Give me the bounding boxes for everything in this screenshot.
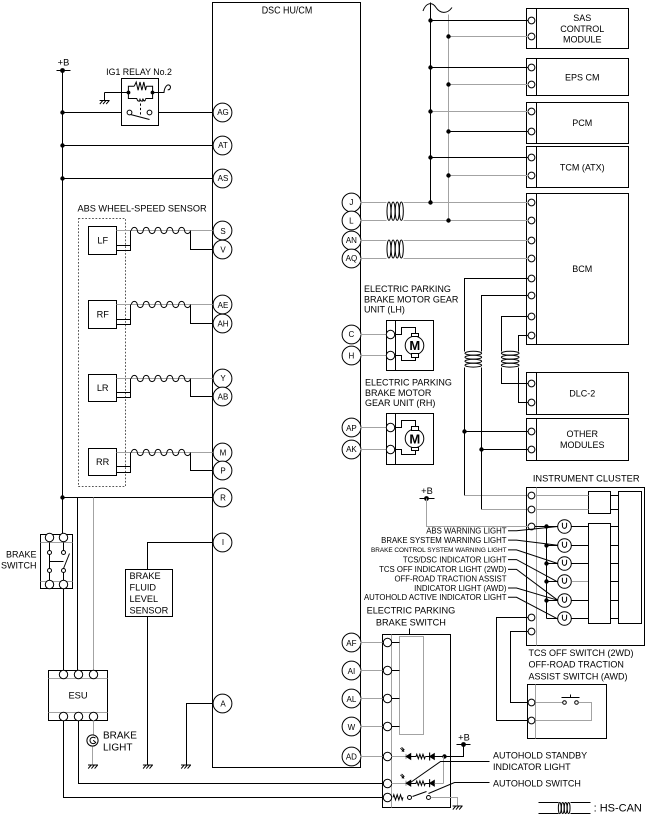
ground relay coil ground (100, 101, 110, 105)
wire sensor LR coil wave (131, 375, 190, 381)
wire driver block to body block row 5 (611, 600, 619, 602)
wire sensor RR return (130, 453, 132, 470)
pin W (342, 717, 361, 736)
wire bus2 to PCM pin2 (449, 131, 529, 133)
module EPS CM (527, 59, 629, 96)
wire relay coil to ground (105, 92, 129, 94)
lamp BRAKE LIGHT (87, 735, 98, 746)
pin parking brake switch pin4 (383, 722, 391, 730)
svg-text:R: R (220, 494, 226, 503)
wire AI stub to inner block (392, 670, 400, 672)
twisted pair braid AN/AQ (387, 240, 391, 258)
wire bus2 to EPS pin2 (449, 84, 529, 86)
svg-text:TCS OFF SWITCH (2WD): TCS OFF SWITCH (2WD) (529, 648, 634, 658)
wire ESU terminal2 to autohold indicator row (79, 721, 383, 784)
leader line AUTOHOLD SWITCH (429, 783, 490, 794)
leader line TCS OFF INDICATOR LIGHT (2WD) (508, 569, 558, 600)
svg-text:OFF-ROAD TRACTION: OFF-ROAD TRACTION (529, 660, 624, 670)
lamp indicator 4 (558, 575, 572, 589)
wire lamp 4 to driver block (572, 581, 589, 583)
pin C (342, 325, 361, 344)
wire AQ to BCM pin4 (361, 258, 387, 260)
wire cluster pin1 to small block (537, 495, 589, 497)
svg-text:AF: AF (346, 639, 356, 648)
wire lamp 5 feed (547, 600, 558, 602)
wire BCM pin6 to vertical pair A line2 (482, 296, 529, 352)
wire driver block to body block row 4 (611, 581, 619, 583)
svg-text:M: M (409, 338, 420, 353)
svg-text:AI: AI (348, 667, 356, 676)
wire cluster pin5 to TCS pin1 (511, 632, 529, 703)
svg-text:TCS OFF INDICATOR LIGHT (2WD): TCS OFF INDICATOR LIGHT (2WD) (379, 565, 507, 574)
pin parking brake switch pin1 (383, 638, 391, 646)
wire ESU terminal1 to autohold switch row (64, 721, 383, 798)
pin BCM pin1 (528, 199, 535, 206)
svg-text:EPS CM: EPS CM (565, 72, 600, 82)
svg-text:LF: LF (97, 236, 108, 246)
wire L to BCM pin2 (361, 220, 387, 222)
wire cluster pin2 to small block (537, 509, 589, 511)
wire lamp 1 feed (547, 526, 558, 528)
wire drop to ESU terminal 2 (77, 498, 79, 671)
wire bus2 to SAS pin2 (449, 36, 529, 38)
svg-text:V: V (220, 245, 226, 254)
svg-text:ELECTRIC PARKING: ELECTRIC PARKING (367, 606, 456, 616)
svg-text:TCM (ATX): TCM (ATX) (560, 162, 605, 172)
wire pair B line2 to DLC-2 pin2 (519, 368, 529, 403)
pin instrument cluster pin3 (528, 523, 535, 530)
svg-text:DSC HU/CM: DSC HU/CM (262, 5, 313, 17)
svg-text:M: M (409, 431, 420, 446)
svg-text:AK: AK (346, 445, 357, 454)
wire BCM pin7 to vertical pair B line1 (502, 317, 529, 352)
svg-text:ABS WARNING LIGHT: ABS WARNING LIGHT (426, 527, 507, 536)
pin AQ (342, 249, 361, 268)
pin J (342, 193, 361, 212)
lamp indicator 6 (558, 612, 572, 626)
wire AL stub to inner block (392, 698, 400, 700)
pin AN (342, 231, 361, 250)
pin AS (213, 169, 232, 188)
svg-text:+B: +B (58, 58, 70, 68)
pin V (213, 240, 232, 259)
pin PCM pin2 (528, 128, 535, 135)
svg-text:BRAKE CONTROL SYSTEM WARNING L: BRAKE CONTROL SYSTEM WARNING LIGHT (371, 547, 507, 554)
sensor RF wheel-speed sensor (89, 301, 117, 329)
wire to OTHER MODULES pin1 (465, 431, 529, 433)
pin BCM pin5 (528, 275, 535, 282)
node +B junction row AD (442, 754, 446, 758)
wire AF stub to inner block (392, 642, 400, 644)
svg-text:S: S (220, 227, 225, 236)
cluster driver block (small rect) (589, 492, 611, 514)
cluster driver block (tall rect) (589, 524, 611, 624)
svg-text:LIGHT: LIGHT (103, 743, 132, 754)
ground terminal A ground (181, 765, 191, 769)
twisted pair braid J/L (387, 202, 391, 220)
svg-text:FLUID: FLUID (130, 583, 157, 593)
wire cluster pin4 to TCS pin2 (497, 618, 529, 721)
sensor RR wheel-speed sensor (89, 449, 117, 476)
svg-text:IG1 RELAY No.2: IG1 RELAY No.2 (106, 67, 172, 77)
svg-text:I: I (222, 538, 224, 547)
svg-text:INDICATOR LIGHT: INDICATOR LIGHT (493, 762, 571, 772)
module SAS CONTROL MODULE (527, 9, 629, 49)
switch TCS OFF switch box (528, 685, 607, 739)
pin instrument cluster pin2 (528, 506, 535, 513)
wire sensor LF coil wave (131, 227, 190, 233)
svg-text:RF: RF (97, 310, 110, 320)
pin OTHER MODULES pin2 (528, 446, 535, 453)
leader line BRAKE CONTROL SYSTEM WARNING LIGHT (508, 550, 558, 564)
wire TCS contact to pin2 loop (536, 703, 592, 721)
node rail-AS junction (60, 176, 64, 180)
wire bus1 to SAS pin1 (431, 20, 529, 22)
wire driver block to body block row 1 (611, 526, 619, 528)
node +B rail junction (60, 68, 65, 73)
pin DLC-2 pin1 (528, 380, 535, 387)
wire AL to switch (361, 698, 383, 700)
wire lamp 4 feed (547, 581, 558, 583)
pin AT (213, 136, 232, 155)
wire W to switch (361, 726, 383, 728)
wire pair A line2 down to instrument cluster pin2 (481, 368, 483, 510)
lamp indicator 2 (558, 539, 572, 553)
pin AK (342, 440, 361, 459)
ground brake fluid sensor ground (143, 765, 153, 769)
svg-text:A: A (220, 700, 226, 709)
svg-text:MODULE: MODULE (563, 35, 602, 45)
legend HS-CAN twisted pair (539, 802, 559, 804)
pin TCS switch pin1 (528, 699, 535, 706)
wire lamp 3 feed (547, 563, 558, 565)
wire +B drop to row AD (445, 745, 464, 757)
wire lamp 6 to driver block (572, 618, 589, 620)
wire cluster pin3 to lamp feed bus (535, 526, 547, 528)
pin AP (342, 418, 361, 437)
leader line TCS/DSC INDICATOR LIGHT (508, 560, 558, 582)
svg-text:SENSOR: SENSOR (130, 606, 169, 616)
wire CAN bus line 1 (CAN-H) (430, 3, 432, 203)
wire cluster lamp feed bus (546, 527, 548, 619)
wire AN to BCM pin3 (361, 240, 387, 242)
wire sensor RR signal (straight, twisted pair) (117, 452, 214, 454)
twisted pair braid B (501, 351, 519, 355)
wire brake switch to ESU terminal 1 (63, 589, 65, 671)
svg-text:ASSIST SWITCH (AWD): ASSIST SWITCH (AWD) (529, 671, 628, 681)
pin BCM pin3 (528, 237, 535, 244)
wire BCM pin8 to vertical pair B line2 (519, 336, 529, 352)
wire bus1 to PCM pin1 (431, 111, 529, 113)
leader line ABS WARNING LIGHT (508, 527, 558, 531)
pin AL (342, 689, 361, 708)
pin AD (342, 747, 361, 766)
pin AB (213, 387, 232, 406)
pin instrument cluster pin4 (528, 614, 535, 621)
pin BCM pin2 (528, 217, 535, 224)
wire pair B line1 to DLC-2 pin1 (502, 368, 529, 384)
lamp indicator 1 (558, 520, 572, 534)
svg-text:BCM: BCM (572, 264, 592, 274)
svg-text:: HS-CAN: : HS-CAN (594, 803, 642, 815)
wire lamp 2 to driver block (572, 545, 589, 547)
ground autohold switch ground (453, 806, 463, 810)
svg-text:H: H (349, 351, 355, 360)
relay IG1 RELAY No.2 (122, 79, 159, 126)
module BCM (527, 194, 629, 345)
svg-text:DLC-2: DLC-2 (569, 389, 595, 399)
lamp indicator 3 (558, 557, 572, 571)
pin EPS pin2 (528, 81, 535, 88)
resistor autohold switch row (393, 795, 403, 800)
leader line BRAKE SYSTEM WARNING LIGHT (508, 540, 558, 545)
pin BCM pin7 (528, 313, 535, 320)
node rail-AG junction (60, 110, 64, 114)
cluster body block (right rect) (619, 492, 642, 624)
leader line INDICATOR LIGHT (AWD) (508, 588, 558, 600)
pin L (342, 211, 361, 230)
pin TCM pin2 (528, 172, 535, 179)
pin AG (213, 103, 232, 122)
svg-text:AP: AP (346, 424, 357, 433)
svg-text:L: L (349, 216, 354, 225)
wire TCS interior pin1 to contact (536, 702, 563, 704)
svg-text:BRAKE SWITCH: BRAKE SWITCH (376, 618, 446, 628)
wire chain row AD to +B node (435, 756, 445, 758)
svg-text:PCM: PCM (572, 118, 592, 128)
pin Y (213, 369, 232, 388)
svg-text:MODULES: MODULES (560, 440, 605, 450)
svg-text:ABS WHEEL-SPEED SENSOR: ABS WHEEL-SPEED SENSOR (78, 204, 208, 214)
wire driver block to body block row 3 (611, 563, 619, 565)
svg-text:INSTRUMENT CLUSTER: INSTRUMENT CLUSTER (533, 474, 640, 484)
wire to OTHER MODULES pin2 (482, 449, 529, 451)
svg-text:AE: AE (218, 301, 229, 310)
node pair A to OTHER MODULES pin1 (462, 429, 466, 433)
pin parking brake switch pin3 (383, 694, 391, 702)
motor LH electric parking brake motor gear unit (387, 321, 434, 371)
svg-text:ELECTRIC PARKING: ELECTRIC PARKING (365, 378, 452, 388)
switch ELECTRIC PARKING BRAKE SWITCH box (383, 635, 451, 808)
pin BCM pin6 (528, 292, 535, 299)
wire J to BCM pin1 (361, 202, 387, 204)
svg-text:BRAKE: BRAKE (6, 550, 37, 560)
wire terminal I to brake fluid level sensor (148, 543, 214, 570)
svg-text:+B: +B (421, 486, 433, 496)
svg-text:BRAKE: BRAKE (130, 571, 161, 581)
svg-text:AL: AL (347, 695, 357, 704)
wire bus1 to EPS pin1 (431, 67, 529, 69)
ground brake light ground (88, 765, 98, 769)
DSC HU/CM module box (213, 3, 361, 768)
wire sensor LR signal (straight, twisted pair) (117, 378, 214, 380)
module OTHER MODULES (527, 419, 629, 461)
pin BCM pin8 (528, 332, 535, 339)
pin EPS pin1 (528, 64, 535, 71)
wire AK to RH motor unit (361, 449, 387, 451)
bus continuation wave symbol (423, 4, 452, 13)
svg-text:UNIT (LH): UNIT (LH) (364, 305, 405, 315)
pin I (213, 533, 232, 552)
pin M (213, 443, 232, 462)
twisted pair braid A (465, 351, 482, 355)
pin parking brake switch pin6 (383, 779, 391, 787)
pin AI (342, 661, 361, 680)
wire AI to switch (361, 670, 383, 672)
wire lamp 1 to driver block (572, 526, 589, 528)
wire ESU terminal3 to brake light (93, 721, 95, 735)
wire pair A line1 down to instrument cluster pin1 (464, 368, 466, 496)
node rail-R junction (60, 495, 64, 499)
pin AF (342, 633, 361, 652)
pin parking brake switch pin2 (383, 666, 391, 674)
wire +B node down to row 2 chain (443, 757, 445, 784)
svg-text:CONTROL: CONTROL (560, 24, 604, 34)
pin TCS switch pin2 (528, 717, 535, 724)
leader line AUTOHOLD ACTIVE INDICATOR LIGHT (508, 597, 558, 619)
svg-text:BRAKE MOTOR GEAR: BRAKE MOTOR GEAR (364, 294, 459, 304)
brake fluid level sensor box (126, 570, 173, 617)
svg-text:BRAKE MOTOR: BRAKE MOTOR (365, 388, 432, 398)
relay switch contacts (127, 110, 132, 115)
svg-text:BRAKE: BRAKE (103, 731, 137, 742)
node rail-AT junction (60, 143, 64, 147)
wire sensor LF return (130, 231, 132, 249)
svg-text:Y: Y (220, 374, 226, 383)
svg-text:AD: AD (346, 752, 357, 761)
wire sensor RF return (130, 305, 132, 323)
pin parking brake switch pin7 (383, 793, 391, 801)
svg-text:TCS/DSC INDICATOR LIGHT: TCS/DSC INDICATOR LIGHT (403, 555, 507, 564)
pin instrument cluster pin5 (528, 628, 535, 635)
wire drop to ESU terminal 3 (93, 498, 95, 671)
svg-text:SAS: SAS (573, 13, 591, 23)
ABS sensor dashed enclosure (79, 219, 126, 487)
wire AF to switch (361, 642, 383, 644)
switch BRAKE SWITCH (41, 535, 73, 589)
pin SAS pin1 (528, 17, 535, 24)
wire lamp 2 feed (547, 545, 558, 547)
wire relay to terminal AG (159, 112, 214, 114)
pin OTHER MODULES pin1 (528, 428, 535, 435)
pin R (213, 488, 232, 507)
wire sensor LF signal (straight, twisted pair) (117, 230, 214, 232)
svg-text:ESU: ESU (68, 691, 87, 701)
wire rail to terminal AT (63, 145, 214, 147)
svg-text:LEVEL: LEVEL (130, 594, 159, 604)
wire rail to relay (63, 112, 122, 114)
leader line AUTOHOLD STANDBY INDICATOR LIGHT (411, 762, 490, 783)
svg-text:AQ: AQ (346, 254, 358, 263)
wire sensor LR return (130, 379, 132, 396)
wire rail to terminal AS (63, 178, 214, 180)
pin H (342, 346, 361, 365)
wire terminal A to ground (187, 704, 214, 765)
svg-text:RR: RR (96, 457, 110, 467)
wire driver block to body block row 2 (611, 545, 619, 547)
instrument cluster box (527, 488, 645, 646)
pin BCM pin4 (528, 255, 535, 262)
sensor LF wheel-speed sensor (89, 227, 117, 255)
label tick to switch box (409, 629, 411, 635)
svg-text:AT: AT (218, 141, 228, 150)
pin TCM pin1 (528, 154, 535, 161)
svg-text:INDICATOR LIGHT (AWD): INDICATOR LIGHT (AWD) (414, 584, 507, 593)
pin parking brake switch pin5 (383, 752, 391, 760)
svg-text:OTHER: OTHER (567, 429, 599, 439)
LED chain autohold indicator row 2 (392, 783, 407, 785)
svg-text:AUTOHOLD SWITCH: AUTOHOLD SWITCH (493, 779, 581, 789)
svg-text:AH: AH (217, 319, 228, 328)
svg-text:P: P (220, 467, 225, 476)
wire AP to RH motor unit (361, 427, 387, 429)
wire AD to switch (361, 756, 383, 758)
svg-text:+B: +B (458, 733, 470, 743)
wire autohold switch to ground (431, 798, 458, 807)
motor RH electric parking brake motor gear unit (387, 414, 434, 465)
svg-text:LR: LR (97, 383, 109, 393)
wire CAN bus line 2 (CAN-L) (448, 15, 450, 221)
svg-text:AN: AN (346, 236, 357, 245)
wire H to LH motor unit (361, 355, 387, 357)
svg-text:BRAKE SYSTEM WARNING LIGHT: BRAKE SYSTEM WARNING LIGHT (381, 536, 507, 545)
wire lamp 5 to driver block (572, 600, 589, 602)
wire small block to body block row1 (611, 495, 619, 497)
wire rail to terminal R (63, 497, 214, 499)
lamp indicator 5 (558, 594, 572, 608)
pin A (213, 694, 232, 713)
svg-text:AB: AB (218, 393, 229, 402)
pin P (213, 461, 232, 480)
svg-text:M: M (220, 448, 227, 457)
svg-text:SWITCH: SWITCH (1, 561, 37, 571)
wire chain row2 to +B branch (435, 783, 444, 785)
wire lamp 3 to driver block (572, 563, 589, 565)
wire sensor RF signal (straight, twisted pair) (117, 304, 214, 306)
module TCM (ATX) (527, 147, 629, 188)
wire sensor RF coil wave (131, 301, 190, 307)
node pair A to OTHER MODULES pin2 (479, 447, 483, 451)
ESU box (49, 671, 108, 721)
wire relay coil right lead with continuation hook (153, 92, 165, 94)
svg-text:J: J (349, 198, 353, 207)
wire left +B rail vertical (62, 71, 64, 535)
svg-text:W: W (348, 723, 356, 732)
svg-text:GEAR UNIT (RH): GEAR UNIT (RH) (365, 398, 435, 408)
svg-text:ELECTRIC PARKING: ELECTRIC PARKING (364, 284, 451, 294)
wire small block to body block row2 (611, 509, 619, 511)
module PCM (527, 103, 629, 144)
TCS push button blade (562, 697, 580, 699)
wire W stub to inner block (392, 726, 400, 728)
svg-text:C: C (349, 330, 355, 339)
sensor LR wheel-speed sensor (89, 375, 117, 402)
wire driver block to body block row 6 (611, 618, 619, 620)
module DLC-2 (527, 373, 629, 415)
pin SAS pin2 (528, 33, 535, 40)
parking brake switch inner block (400, 637, 424, 735)
svg-text:AUTOHOLD STANDBY: AUTOHOLD STANDBY (493, 751, 587, 761)
pin AE (213, 295, 232, 314)
svg-text:OFF-ROAD TRACTION ASSIST: OFF-ROAD TRACTION ASSIST (394, 575, 506, 584)
wire bus1 to TCM pin1 (431, 157, 529, 159)
wire sensor to ground (147, 617, 149, 765)
pin AH (213, 314, 232, 333)
switch autohold switch contacts (408, 796, 412, 800)
pin DLC-2 pin2 (528, 399, 535, 406)
pin instrument cluster pin1 (528, 492, 535, 499)
wire lamp 6 feed (547, 618, 558, 620)
